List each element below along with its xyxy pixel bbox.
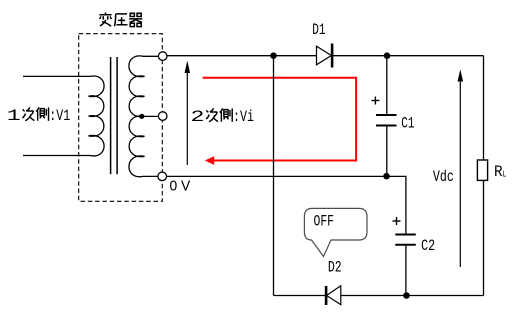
svg-text:Vdc: Vdc xyxy=(433,168,454,186)
junction node (top rail / left vertical) xyxy=(270,52,277,59)
arrow Vdc (measurement arrow up) xyxy=(458,69,464,267)
label Vdc xyxy=(433,168,454,186)
capacitor C2 xyxy=(395,235,416,245)
wire C1 stem top xyxy=(386,56,388,114)
label 変圧器 (transformer) xyxy=(99,12,142,26)
label D1 xyxy=(312,21,325,39)
center tap junction dot xyxy=(139,114,144,119)
svg-text:2: 2 xyxy=(191,108,205,126)
junction node (bottom rail / C2) xyxy=(403,292,410,299)
svg-text::V1: :V1 xyxy=(49,107,70,125)
wire right edge top xyxy=(483,56,485,160)
label OFF xyxy=(314,213,335,231)
terminal top (circle) xyxy=(158,52,167,61)
svg-text:L: L xyxy=(503,170,507,180)
diode D1 xyxy=(317,44,333,68)
diode D2 (pointing left) xyxy=(326,286,341,305)
label 1次側:V1 xyxy=(7,107,71,125)
terminal center tap (circle) xyxy=(158,112,167,121)
svg-text:0 V: 0 V xyxy=(170,178,191,195)
resistor RL xyxy=(477,160,487,180)
transformer primary winding xyxy=(89,76,105,156)
transformer boundary box (dashed) xyxy=(79,34,163,202)
junction node (top rail / C1) xyxy=(384,52,391,59)
wire right edge bottom xyxy=(483,180,485,295)
wire 0V line xyxy=(167,175,387,177)
transformer secondary winding xyxy=(129,56,158,177)
terminal bottom 0V (circle) xyxy=(158,172,167,181)
wire primary top lead xyxy=(23,75,90,77)
label D2 xyxy=(328,259,342,277)
wire C1 stem bottom xyxy=(386,127,388,177)
junction node (0V / C1 / C2) xyxy=(383,173,390,180)
svg-text::Vi: :Vi xyxy=(233,108,254,126)
wire left vertical (top rail to bottom rail) xyxy=(273,56,275,296)
wire C2 stem bottom xyxy=(405,246,407,296)
label 2次側:Vi xyxy=(191,108,255,126)
center tap wire xyxy=(142,115,159,117)
svg-text:D1: D1 xyxy=(312,21,325,39)
wire bottom rail xyxy=(274,295,484,297)
arrow Vi (measurement arrow up) xyxy=(185,61,191,165)
svg-text:C2: C2 xyxy=(421,237,435,255)
label 0 V xyxy=(170,178,191,195)
label C1 xyxy=(401,115,414,133)
svg-text:1: 1 xyxy=(7,107,21,125)
plus sign C2 xyxy=(393,217,401,225)
label RL xyxy=(494,163,506,181)
svg-text:OFF: OFF xyxy=(314,213,335,231)
wire top rail xyxy=(167,55,484,57)
red current loop arrow xyxy=(203,78,357,165)
svg-text:C1: C1 xyxy=(401,115,414,133)
capacitor C1 xyxy=(376,115,397,126)
plus sign C1 xyxy=(371,97,379,105)
callout bubble OFF xyxy=(304,208,367,256)
label C2 xyxy=(421,237,435,255)
transformer core xyxy=(111,57,118,174)
wire primary bottom lead xyxy=(23,155,90,157)
svg-text:D2: D2 xyxy=(328,259,342,277)
wire to C2 (right then down) xyxy=(387,176,406,233)
